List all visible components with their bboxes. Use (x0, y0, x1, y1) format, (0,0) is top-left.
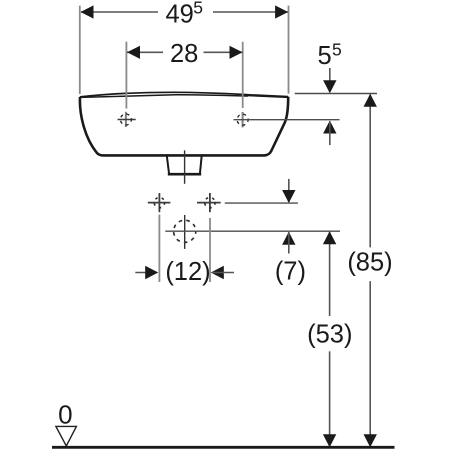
dim 53 lower arrowhead (323, 434, 336, 447)
dim 49.5 right arrowhead (275, 5, 288, 18)
drain reference line (165, 230, 340, 232)
supply left crosshair (148, 193, 171, 212)
supply right crosshair (197, 193, 221, 212)
dim 7 lower arrow tail (288, 232, 290, 254)
washbasin rim inner edge (80, 95, 248, 98)
dim 5.5 lower arrow tail (329, 121, 331, 145)
dim 12 right arrowhead (211, 266, 224, 279)
dim 85 upper arrowhead (364, 94, 377, 107)
top reference line (rim level) (295, 93, 377, 95)
dim 7 lower arrowhead (282, 232, 295, 245)
svg-text:5: 5 (318, 42, 332, 70)
svg-text:(53): (53) (307, 320, 352, 348)
dim 12 right extension line (209, 218, 211, 282)
mounting hole reference line (234, 119, 340, 121)
dim 49.5 left extension line (79, 6, 81, 94)
drain trap vertical centerline (184, 215, 186, 249)
supply reference line (225, 202, 298, 204)
floor level triangle (56, 426, 77, 446)
mounting hole left crosshair (118, 112, 136, 127)
washbasin rim merged right edge (246, 95, 289, 97)
svg-text:(85): (85) (347, 248, 392, 276)
drain trap dashed circle (174, 220, 196, 242)
dim 28 right extension line (242, 42, 244, 108)
dim 28 line left segment (127, 51, 163, 53)
dim 49.5 line right segment (213, 11, 288, 13)
dim 5.5 lower arrowhead (323, 121, 336, 134)
washbasin rim outer edge (80, 92, 246, 97)
dim 28 right arrowhead (230, 46, 243, 59)
dim 12 left tail (135, 272, 157, 274)
drain fitting left wall (167, 157, 169, 175)
svg-text:0: 0 (58, 400, 72, 430)
dim 85 lower arrowhead (364, 434, 377, 447)
dim 49.5 line left segment (81, 11, 158, 13)
svg-text:28: 28 (170, 40, 198, 68)
washbasin body outline (80, 97, 288, 156)
dim 7 upper arrowhead (282, 190, 295, 203)
drain fitting right wall (200, 157, 202, 175)
dim 5.5 upper arrow tail (329, 68, 331, 92)
dim 12 left extension line (158, 215, 160, 282)
dim 53 upper arrowhead (323, 231, 336, 244)
mounting hole right crosshair (237, 112, 248, 127)
dim 7 upper arrow tail (288, 179, 290, 202)
svg-text:(12): (12) (165, 258, 210, 286)
svg-text:(7): (7) (275, 258, 306, 286)
svg-text:5: 5 (332, 40, 342, 60)
dim 49.5 left arrowhead (81, 5, 94, 18)
dim 28 left extension line (125, 42, 127, 109)
dim 12 left arrowhead (145, 266, 158, 279)
dim 12 right tail (212, 272, 234, 274)
dim 53 line lower segment (329, 351, 331, 446)
floor line (52, 446, 395, 449)
dim 85 line lower segment (369, 281, 371, 446)
dim 49.5 right extension line (288, 6, 290, 94)
dim 5.5 upper arrowhead (323, 80, 336, 93)
dim 85 line upper segment (369, 95, 371, 248)
dim 28 left arrowhead (127, 46, 140, 59)
dim 28 line right segment (204, 51, 243, 53)
drain fitting bottom (168, 173, 201, 176)
dim 53 line upper segment (329, 232, 331, 316)
drain fitting centerline (184, 150, 186, 184)
svg-text:49: 49 (166, 1, 194, 29)
svg-text:5: 5 (193, 0, 203, 18)
